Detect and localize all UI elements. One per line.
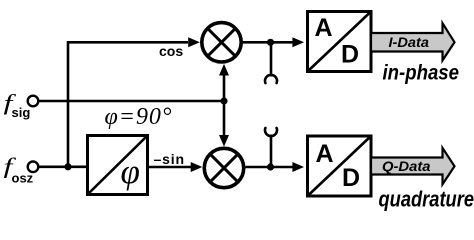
sample probe 2 bbox=[265, 128, 277, 167]
svg-text:osz: osz bbox=[12, 171, 34, 186]
ADC U2 bbox=[308, 136, 372, 196]
wire junction down to mixer M2 bbox=[219, 101, 229, 147]
data arrow Q-Data bbox=[371, 148, 455, 184]
svg-text:in-phase: in-phase bbox=[383, 62, 460, 85]
wire mixer M2 to ADC U2 bbox=[246, 162, 305, 172]
label f_osz bbox=[4, 154, 34, 185]
svg-text:sig: sig bbox=[12, 105, 31, 120]
wire junction up to mixer M1 bbox=[219, 64, 229, 101]
wire f_osz to phase shifter bbox=[38, 166, 86, 169]
mixer M2 bbox=[204, 148, 243, 187]
svg-text:–sin: –sin bbox=[154, 151, 185, 167]
svg-text:φ: φ bbox=[121, 152, 140, 191]
svg-text:D: D bbox=[342, 164, 360, 192]
sample probe 1 bbox=[265, 42, 277, 83]
svg-text:D: D bbox=[341, 40, 359, 68]
input terminal f_osz bbox=[28, 162, 39, 173]
wire mixer M1 to ADC U1 bbox=[243, 37, 304, 47]
wire oscillator cos branch to mixer M1 bbox=[68, 37, 200, 167]
mixer M1 bbox=[202, 23, 241, 62]
svg-text:quadrature: quadrature bbox=[379, 186, 474, 211]
label f_sig bbox=[4, 91, 31, 120]
ADC U1 bbox=[308, 12, 372, 72]
svg-text:I-Data: I-Data bbox=[389, 35, 430, 50]
node junction on M2 output bbox=[267, 163, 274, 170]
svg-text:φ=90°: φ=90° bbox=[105, 104, 172, 130]
node junction on M1 output bbox=[267, 39, 274, 46]
node junction on f_sig wire bbox=[220, 97, 227, 104]
svg-text:cos: cos bbox=[159, 43, 183, 59]
wire f_sig to junction node bbox=[38, 100, 224, 103]
wire phase shifter to mixer M2 bbox=[149, 162, 202, 172]
node junction on f_osz wire bbox=[64, 163, 71, 170]
svg-text:A: A bbox=[316, 140, 334, 168]
input terminal f_sig bbox=[28, 96, 39, 107]
svg-text:A: A bbox=[315, 14, 333, 42]
phase shifter box bbox=[88, 136, 148, 195]
data arrow I-Data bbox=[371, 23, 455, 60]
svg-text:Q-Data: Q-Data bbox=[382, 158, 431, 174]
